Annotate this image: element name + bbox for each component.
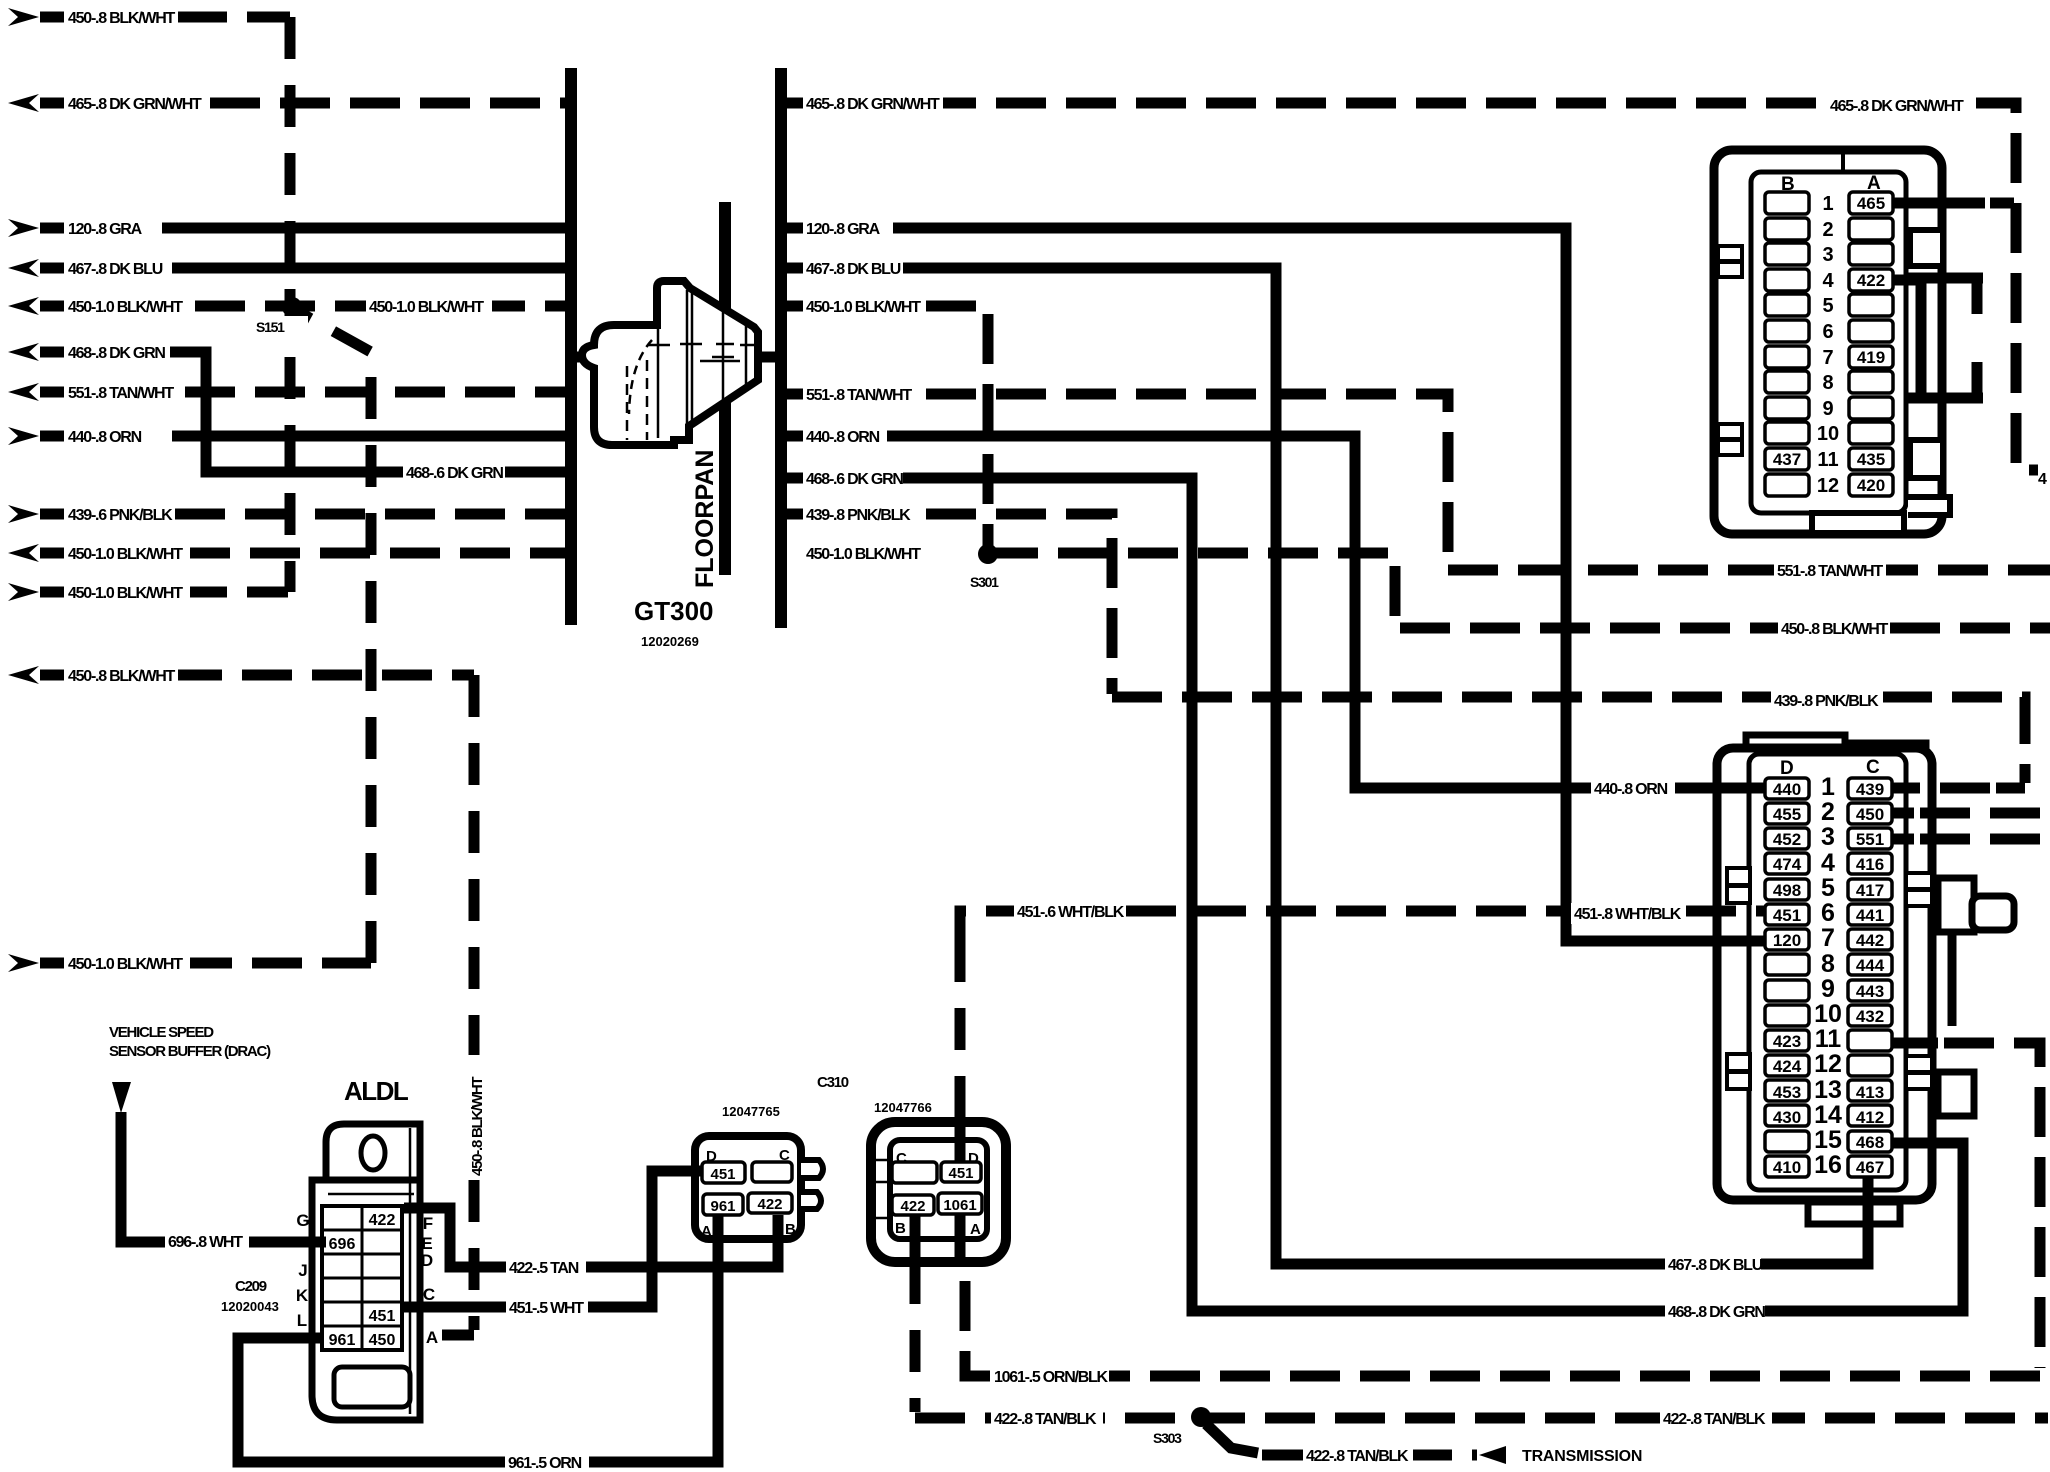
- wire splice-S151 vertical dashed x=290: [285, 17, 296, 592]
- svg-text:F: F: [423, 1214, 433, 1233]
- svg-text:437: 437: [1773, 450, 1801, 469]
- svg-text:6: 6: [1822, 321, 1833, 343]
- svg-text:7: 7: [1821, 924, 1835, 952]
- C101 left index tabs lower: [1727, 1054, 1750, 1071]
- wire 439 dashes into C101 pin C1: [1892, 783, 1990, 794]
- svg-text:465-.8 DK GRN/WHT: 465-.8 DK GRN/WHT: [806, 96, 940, 113]
- far right wire labels: [991, 95, 2047, 1466]
- svg-text:455: 455: [1773, 805, 1801, 824]
- label 120-.8 GRA (right of floorpan): [803, 218, 893, 239]
- label 422-.8 TAN/BLK (left of S303): [991, 1408, 1103, 1429]
- svg-text:450-.8 BLK/WHT: 450-.8 BLK/WHT: [1781, 621, 1889, 638]
- svg-text:450-1.0 BLK/WHT: 450-1.0 BLK/WHT: [68, 956, 183, 973]
- svg-text:423: 423: [1773, 1032, 1801, 1051]
- ALDL wire labels: [165, 1231, 249, 1252]
- connector C100 (12-pin, top right) outer shell: [1714, 150, 1983, 534]
- wire 439-.6 PNK/BLK row9 dashed to bus: [175, 509, 566, 520]
- svg-text:474: 474: [1773, 855, 1802, 874]
- wire 450-1.0 BLK/WHT row5 dashed into S151 and on to bus: [195, 301, 566, 312]
- svg-text:S301: S301: [970, 574, 999, 590]
- svg-text:14: 14: [1814, 1101, 1842, 1129]
- svg-text:467: 467: [1856, 1158, 1884, 1177]
- ALDL inner right rib: [409, 1128, 412, 1414]
- svg-text:432: 432: [1856, 1007, 1884, 1026]
- wire 450-1.0 BLK/WHT from S301 to right, jog down, 450-.8 BLK/WHT to edge: [988, 553, 2050, 628]
- svg-text:467-.8 DK BLU: 467-.8 DK BLU: [806, 261, 901, 278]
- arrow row6: [8, 343, 39, 361]
- svg-text:439-.6 PNK/BLK: 439-.6 PNK/BLK: [68, 507, 173, 524]
- arrow row12: [8, 666, 39, 684]
- svg-text:451: 451: [369, 1308, 396, 1325]
- label 440-.8 ORN (right of floorpan): [803, 426, 887, 447]
- C310-765 internals: [701, 1147, 796, 1240]
- svg-text:L: L: [297, 1311, 307, 1330]
- svg-text:465-.8 DK GRN/WHT: 465-.8 DK GRN/WHT: [68, 96, 202, 113]
- svg-text:450-1.0 BLK/WHT: 450-1.0 BLK/WHT: [806, 546, 921, 563]
- svg-text:10: 10: [1817, 423, 1839, 445]
- connector C310 half 12047765 shell: [695, 1136, 823, 1239]
- svg-text:1: 1: [1821, 773, 1835, 801]
- bus bar left (harness trunk at floorpan, left side): [565, 68, 577, 625]
- wire 422-.8 TAN/BLK from C310-766 pin B down and right to edge: [910, 1262, 921, 1412]
- label 451-.6 WHT/BLK: [1014, 901, 1126, 922]
- wire 467-.8 DK BLU row4 left of bus (solid): [172, 263, 566, 274]
- svg-text:440: 440: [1773, 780, 1801, 799]
- svg-text:12047766: 12047766: [874, 1100, 932, 1115]
- svg-text:467-.8 DK BLU: 467-.8 DK BLU: [1668, 1257, 1763, 1274]
- C101 right profile latch: [1938, 878, 1974, 932]
- svg-text:15: 15: [1814, 1126, 1842, 1154]
- connector C209 ALDL shell: [312, 1124, 420, 1420]
- svg-text:B: B: [785, 1221, 796, 1238]
- C100 right profile upper tab: [1910, 230, 1940, 266]
- svg-text:468-.6 DK GRN: 468-.6 DK GRN: [806, 471, 903, 488]
- svg-text:D: D: [421, 1251, 433, 1270]
- svg-text:440-.8 ORN: 440-.8 ORN: [806, 429, 880, 446]
- wire 450-.8 BLK/WHT vertical dashed to ALDL pin A: [469, 675, 480, 1055]
- label 440-.8 ORN (at pin D1): [1591, 778, 1675, 799]
- svg-text:11: 11: [1815, 1025, 1842, 1053]
- svg-text:C310: C310: [817, 1074, 849, 1091]
- svg-text:1061: 1061: [943, 1197, 976, 1214]
- svg-text:4: 4: [2038, 471, 2047, 488]
- svg-text:SENSOR BUFFER (DRAC): SENSOR BUFFER (DRAC): [109, 1043, 271, 1060]
- arrow row5: [8, 297, 39, 315]
- label 467-.8 DK BLU (right of floorpan): [803, 258, 903, 279]
- svg-text:412: 412: [1856, 1108, 1884, 1127]
- svg-text:439-.8 PNK/BLK: 439-.8 PNK/BLK: [1774, 693, 1879, 710]
- ALDL main body: [312, 1180, 420, 1420]
- wire 468-.8 DK GRN row6 solid with jog down: [170, 352, 566, 472]
- label 450-1.0 BLK/WHT at S151 right: [366, 296, 492, 317]
- wire 120-.8 GRA right of bus to C101 pin D7: [786, 228, 1766, 941]
- arrow row3: [8, 219, 39, 237]
- svg-text:S151: S151: [256, 319, 285, 335]
- svg-text:12: 12: [1814, 1050, 1842, 1078]
- ALDL inner top line: [328, 1193, 414, 1196]
- connector C310 half 12047766 shell: [871, 1122, 1006, 1262]
- wire ALDL 451 to 451-.5 WHT to C310-765 pin D: [404, 1171, 705, 1307]
- svg-text:3: 3: [1822, 244, 1833, 266]
- svg-text:TRANSMISSION: TRANSMISSION: [1522, 1448, 1642, 1465]
- wire C101 pin C3 551 dashed to right edge: [1890, 834, 1914, 845]
- svg-text:8: 8: [1822, 372, 1833, 394]
- svg-text:2: 2: [1821, 798, 1835, 826]
- svg-text:1: 1: [1822, 193, 1833, 215]
- C310-766 internals: [892, 1150, 982, 1238]
- svg-text:450-1.0 BLK/WHT: 450-1.0 BLK/WHT: [369, 299, 484, 316]
- label 450-.8 BLK/WHT (far right): [1778, 618, 1886, 639]
- svg-text:8: 8: [1821, 950, 1835, 978]
- svg-text:A: A: [426, 1328, 438, 1347]
- svg-text:451-.5 WHT: 451-.5 WHT: [509, 1300, 584, 1317]
- right-of-bus wire labels: [803, 93, 943, 564]
- C100 left index tabs upper: [1718, 246, 1742, 261]
- C101 top step: [1746, 735, 1926, 752]
- label 450-1.0 BLK/WHT (at splice S301): [803, 543, 925, 564]
- ALDL cell values: [329, 1212, 396, 1349]
- svg-text:696: 696: [329, 1236, 356, 1253]
- svg-text:13: 13: [1814, 1076, 1842, 1104]
- svg-text:443: 443: [1856, 982, 1884, 1001]
- wire 450-.8 BLK/WHT row1 dashed to corner: [177, 12, 290, 23]
- C100 left index tabs lower: [1718, 424, 1742, 439]
- pin numbers 1-16 and terminal values: [1773, 773, 1885, 1179]
- C310-765 right lock tabs: [801, 1160, 823, 1178]
- svg-text:451-.6 WHT/BLK: 451-.6 WHT/BLK: [1017, 904, 1125, 921]
- label 465-.8 DK GRN/WHT (right of floorpan): [803, 93, 943, 114]
- ALDL lower cavity: [334, 1367, 410, 1407]
- svg-text:422-.8 TAN/BLK: 422-.8 TAN/BLK: [994, 1411, 1097, 1428]
- label 439-.8 PNK/BLK (far right): [1771, 690, 1883, 711]
- svg-text:9: 9: [1822, 398, 1833, 420]
- svg-text:424: 424: [1773, 1057, 1802, 1076]
- label 439-.8 PNK/BLK (right of floorpan): [803, 504, 913, 525]
- wire 450-.8 BLK/WHT row12 dashed to corner down: [172, 670, 474, 681]
- ALDL key slot: [361, 1136, 385, 1170]
- wire ALDL 422 to 422-.5 TAN to C310-765 pin B: [404, 1208, 778, 1267]
- arrow row1: [8, 8, 39, 26]
- svg-text:468-.8 DK GRN: 468-.8 DK GRN: [68, 345, 165, 362]
- label 451-.8 WHT/BLK (at pin D6): [1571, 903, 1683, 924]
- wire 450-1.0 BLK/WHT right of bus to splice S301: [786, 306, 988, 548]
- svg-text:422: 422: [369, 1212, 396, 1229]
- left edge arrows and wire name labels: [8, 6, 206, 974]
- label 468-.6 DK GRN mid: [403, 462, 505, 483]
- wire 465-.8 DK GRN/WHT row2 left of bus: [210, 98, 566, 109]
- svg-text:FLOORPAN: FLOORPAN: [691, 450, 719, 588]
- wire C100 pin A1 465 stub to vertical: [1892, 198, 1985, 209]
- label 468-.8 DK GRN (bottom): [1665, 1301, 1765, 1322]
- label 551-.8 TAN/WHT (far right): [1774, 560, 1886, 581]
- svg-text:120-.8 GRA: 120-.8 GRA: [68, 221, 143, 238]
- wire S303 drop elbow: [1206, 1424, 1258, 1453]
- svg-text:9: 9: [1821, 975, 1835, 1003]
- svg-text:468-.8 DK GRN: 468-.8 DK GRN: [1668, 1304, 1765, 1321]
- svg-text:450-1.0 BLK/WHT: 450-1.0 BLK/WHT: [806, 299, 921, 316]
- ALDL top tab: [326, 1124, 420, 1180]
- grommet neck to right bus: [758, 352, 779, 363]
- pin numbers 1-12 and terminal values: [1765, 192, 1809, 214]
- wire C101 pin C11 to right edge, down, 1061-.5 ORN/BLK to C310-766 pin A: [1886, 1038, 1938, 1049]
- svg-text:439-.8 PNK/BLK: 439-.8 PNK/BLK: [806, 507, 911, 524]
- arrow row9: [8, 505, 39, 523]
- svg-text:C209: C209: [235, 1278, 267, 1295]
- grommet GT300 body: [582, 281, 758, 445]
- wire 551-.8 TAN/WHT right of bus, jog down, to right edge: [786, 394, 2050, 570]
- C100 right profile latch bracket: [1906, 278, 1983, 398]
- svg-text:498: 498: [1773, 881, 1801, 900]
- wire S151 branch vertical dashed x=371: [295, 310, 371, 963]
- svg-text:551: 551: [1856, 830, 1884, 849]
- grommet interior lines: [657, 290, 660, 438]
- wire C101 pin C2 450 dashed to right edge: [1890, 808, 1914, 819]
- svg-text:D: D: [1780, 758, 1794, 779]
- label 465-.8 DK GRN/WHT (top right): [1827, 95, 1973, 116]
- transmission arrow: [1479, 1446, 1506, 1464]
- svg-text:10: 10: [1814, 1000, 1842, 1028]
- splice S301 dot and label: [978, 544, 998, 564]
- svg-text:422-.5 TAN: 422-.5 TAN: [509, 1260, 579, 1277]
- wire 465-.8 DK GRN/WHT right of bus to top right corner: [786, 103, 2038, 470]
- vss down arrow: [112, 1082, 131, 1113]
- svg-text:J: J: [298, 1261, 307, 1280]
- splice S151 dot and label: [282, 297, 302, 317]
- arrow row4: [8, 259, 39, 277]
- svg-text:465-.8 DK GRN/WHT: 465-.8 DK GRN/WHT: [1830, 98, 1964, 115]
- svg-text:12: 12: [1817, 475, 1839, 497]
- svg-text:K: K: [296, 1286, 309, 1305]
- svg-text:11: 11: [1817, 449, 1838, 471]
- label 1061-.5 ORN/BLK: [991, 1366, 1109, 1387]
- svg-text:439: 439: [1856, 780, 1884, 799]
- svg-text:4: 4: [1822, 270, 1834, 292]
- svg-text:696-.8 WHT: 696-.8 WHT: [168, 1234, 243, 1251]
- wire ALDL 961 loop down to 961-.5 ORN to C310-765 pin A: [238, 1216, 718, 1462]
- svg-text:12020269: 12020269: [641, 634, 699, 649]
- svg-text:422: 422: [900, 1198, 925, 1215]
- svg-text:450-.8 BLK/WHT: 450-.8 BLK/WHT: [68, 668, 176, 685]
- ALDL terminal grid: [322, 1206, 402, 1350]
- svg-text:450-.8 BLK/WHT: 450-.8 BLK/WHT: [68, 10, 176, 27]
- arrow row10: [8, 544, 39, 562]
- wire 422-.8 TAN/BLK to transmission: [1262, 1450, 1477, 1461]
- wire 450-1.0 BLK/WHT row13 dashed to corner up: [182, 958, 371, 969]
- arrow row7: [8, 383, 39, 401]
- label 551-.8 TAN/WHT (right of floorpan): [803, 384, 911, 405]
- svg-text:ALDL: ALDL: [344, 1076, 409, 1106]
- svg-text:961: 961: [329, 1332, 356, 1349]
- svg-text:450-.8 BLK/WHT: 450-.8 BLK/WHT: [469, 1077, 486, 1176]
- arrow row11: [8, 583, 39, 601]
- svg-text:435: 435: [1857, 450, 1885, 469]
- svg-text:440-.8 ORN: 440-.8 ORN: [1594, 781, 1668, 798]
- wire 696-.8 WHT from VSS buffer to ALDL pin H: [121, 1112, 326, 1242]
- C100 right profile lower tab: [1910, 440, 1940, 478]
- svg-text:413: 413: [1856, 1083, 1884, 1102]
- svg-text:451-.8 WHT/BLK: 451-.8 WHT/BLK: [1574, 906, 1682, 923]
- C100 inner housing: [1751, 172, 1906, 513]
- svg-text:440-.8 ORN: 440-.8 ORN: [68, 429, 142, 446]
- svg-text:410: 410: [1773, 1158, 1801, 1177]
- svg-text:417: 417: [1856, 881, 1884, 900]
- svg-text:B: B: [895, 1220, 906, 1237]
- wire 551-.8 TAN/WHT row7 dashed to bus: [185, 387, 566, 398]
- svg-text:451: 451: [710, 1166, 735, 1183]
- C101 right index tabs: [1906, 873, 1932, 889]
- C100 top/bottom center ticks: [1841, 152, 1845, 172]
- C100 12-pin internals: [1765, 173, 1893, 497]
- label 422-.8 TAN/BLK (right of S303): [1660, 1408, 1772, 1429]
- svg-text:420: 420: [1857, 476, 1885, 495]
- splice S303 dot and label: [1191, 1407, 1211, 1427]
- svg-text:4: 4: [1821, 849, 1835, 877]
- arrow row2: [8, 94, 39, 112]
- C101 left index tabs upper: [1727, 868, 1750, 885]
- wire C100 pin A4 422 stub: [1892, 275, 1925, 286]
- label 468-.6 DK GRN (right of floorpan): [803, 468, 903, 489]
- bus bar right (harness trunk at floorpan, right side): [775, 68, 787, 628]
- wire 440-.8 ORN right of bus to C101 pin D1: [786, 436, 1766, 788]
- svg-text:441: 441: [1856, 906, 1884, 925]
- svg-text:450: 450: [1856, 805, 1884, 824]
- svg-text:444: 444: [1856, 956, 1885, 975]
- svg-text:2: 2: [1822, 219, 1833, 241]
- svg-text:12020043: 12020043: [221, 1299, 279, 1314]
- svg-text:450: 450: [369, 1332, 396, 1349]
- connector C101 (16-pin, middle right) outer shell: [1717, 735, 2014, 1224]
- label 450-1.0 BLK/WHT (right of floorpan): [803, 296, 925, 317]
- svg-text:5: 5: [1821, 874, 1835, 902]
- svg-text:468-.6 DK GRN: 468-.6 DK GRN: [406, 465, 503, 482]
- svg-text:419: 419: [1857, 348, 1885, 367]
- svg-text:VEHICLE SPEED: VEHICLE SPEED: [109, 1024, 214, 1041]
- svg-text:120: 120: [1773, 931, 1801, 950]
- arrow row13: [8, 954, 39, 972]
- svg-text:3: 3: [1821, 823, 1835, 851]
- svg-text:12047765: 12047765: [722, 1104, 780, 1119]
- svg-text:C: C: [1866, 757, 1880, 778]
- svg-text:G: G: [296, 1211, 309, 1230]
- svg-text:422: 422: [1857, 271, 1885, 290]
- wire 439-.8 PNK/BLK right of bus, jog down, to right edge, down to C101 pin C1: [786, 514, 2025, 788]
- C101 bottom lip: [1808, 1202, 1900, 1224]
- svg-text:S303: S303: [1153, 1430, 1182, 1446]
- svg-text:442: 442: [1856, 931, 1884, 950]
- ALDL pin letters: [296, 1211, 438, 1347]
- svg-text:452: 452: [1773, 830, 1801, 849]
- C101 16-pin internals: [1765, 757, 1892, 1179]
- label 422-.8 TAN/BLK (to transmission): [1303, 1445, 1413, 1466]
- svg-text:467-.8 DK BLU: 467-.8 DK BLU: [68, 261, 163, 278]
- svg-text:422: 422: [757, 1196, 782, 1213]
- svg-text:C: C: [423, 1285, 435, 1304]
- svg-text:16: 16: [1814, 1151, 1842, 1179]
- wire 450-1.0 BLK/WHT row11 dashed to S151 vertical: [177, 587, 288, 598]
- svg-text:6: 6: [1821, 899, 1835, 927]
- svg-text:450-1.0 BLK/WHT: 450-1.0 BLK/WHT: [68, 546, 183, 563]
- svg-text:451: 451: [948, 1165, 973, 1182]
- svg-text:5: 5: [1822, 295, 1833, 317]
- svg-text:551-.8 TAN/WHT: 551-.8 TAN/WHT: [68, 385, 174, 402]
- svg-text:961-.5 ORN: 961-.5 ORN: [508, 1455, 582, 1472]
- svg-text:422-.8 TAN/BLK: 422-.8 TAN/BLK: [1663, 1411, 1766, 1428]
- floorpan panel bar: [719, 202, 731, 575]
- svg-text:1061-.5 ORN/BLK: 1061-.5 ORN/BLK: [994, 1369, 1109, 1386]
- wire 440-.8 ORN row8 solid to bus: [172, 431, 566, 442]
- wire 450-1.0 BLK/WHT row10 dashed to bus: [180, 548, 566, 559]
- svg-text:430: 430: [1773, 1108, 1801, 1127]
- svg-text:120-.8 GRA: 120-.8 GRA: [806, 221, 881, 238]
- svg-text:422-.8 TAN/BLK: 422-.8 TAN/BLK: [1306, 1448, 1409, 1465]
- arrow row8: [8, 427, 39, 445]
- svg-text:450-1.0 BLK/WHT: 450-1.0 BLK/WHT: [68, 585, 183, 602]
- svg-text:A: A: [701, 1223, 712, 1240]
- wire 451-.6 WHT/BLK from C310-766 pin D up and right to C101 pin D6: [955, 955, 966, 1118]
- label 467-.8 DK BLU (bottom): [1665, 1254, 1761, 1275]
- svg-text:GT300: GT300: [634, 596, 714, 626]
- svg-text:551-.8 TAN/WHT: 551-.8 TAN/WHT: [1777, 563, 1883, 580]
- svg-text:453: 453: [1773, 1083, 1801, 1102]
- wire 467-.8 DK BLU right of bus, down and across to C101 pin C16: [786, 268, 1868, 1264]
- svg-text:468: 468: [1856, 1133, 1884, 1152]
- svg-text:416: 416: [1856, 855, 1884, 874]
- svg-text:961: 961: [710, 1198, 735, 1215]
- wire 468-.6 DK GRN right of bus, down, across bottom, up to C101 pin C15: [786, 478, 1963, 1311]
- svg-text:451: 451: [1773, 906, 1801, 925]
- wire 1061 inside C310-766: [955, 1212, 966, 1262]
- wire 120-.8 GRA row3 left of bus (solid): [162, 223, 566, 234]
- svg-text:465: 465: [1857, 194, 1885, 213]
- svg-text:450-1.0 BLK/WHT: 450-1.0 BLK/WHT: [68, 299, 183, 316]
- grommet neck to left bus: [573, 352, 586, 363]
- svg-text:551-.8 TAN/WHT: 551-.8 TAN/WHT: [806, 387, 912, 404]
- C101 inner housing: [1749, 754, 1906, 1190]
- svg-text:A: A: [970, 1221, 981, 1238]
- svg-text:7: 7: [1822, 347, 1833, 369]
